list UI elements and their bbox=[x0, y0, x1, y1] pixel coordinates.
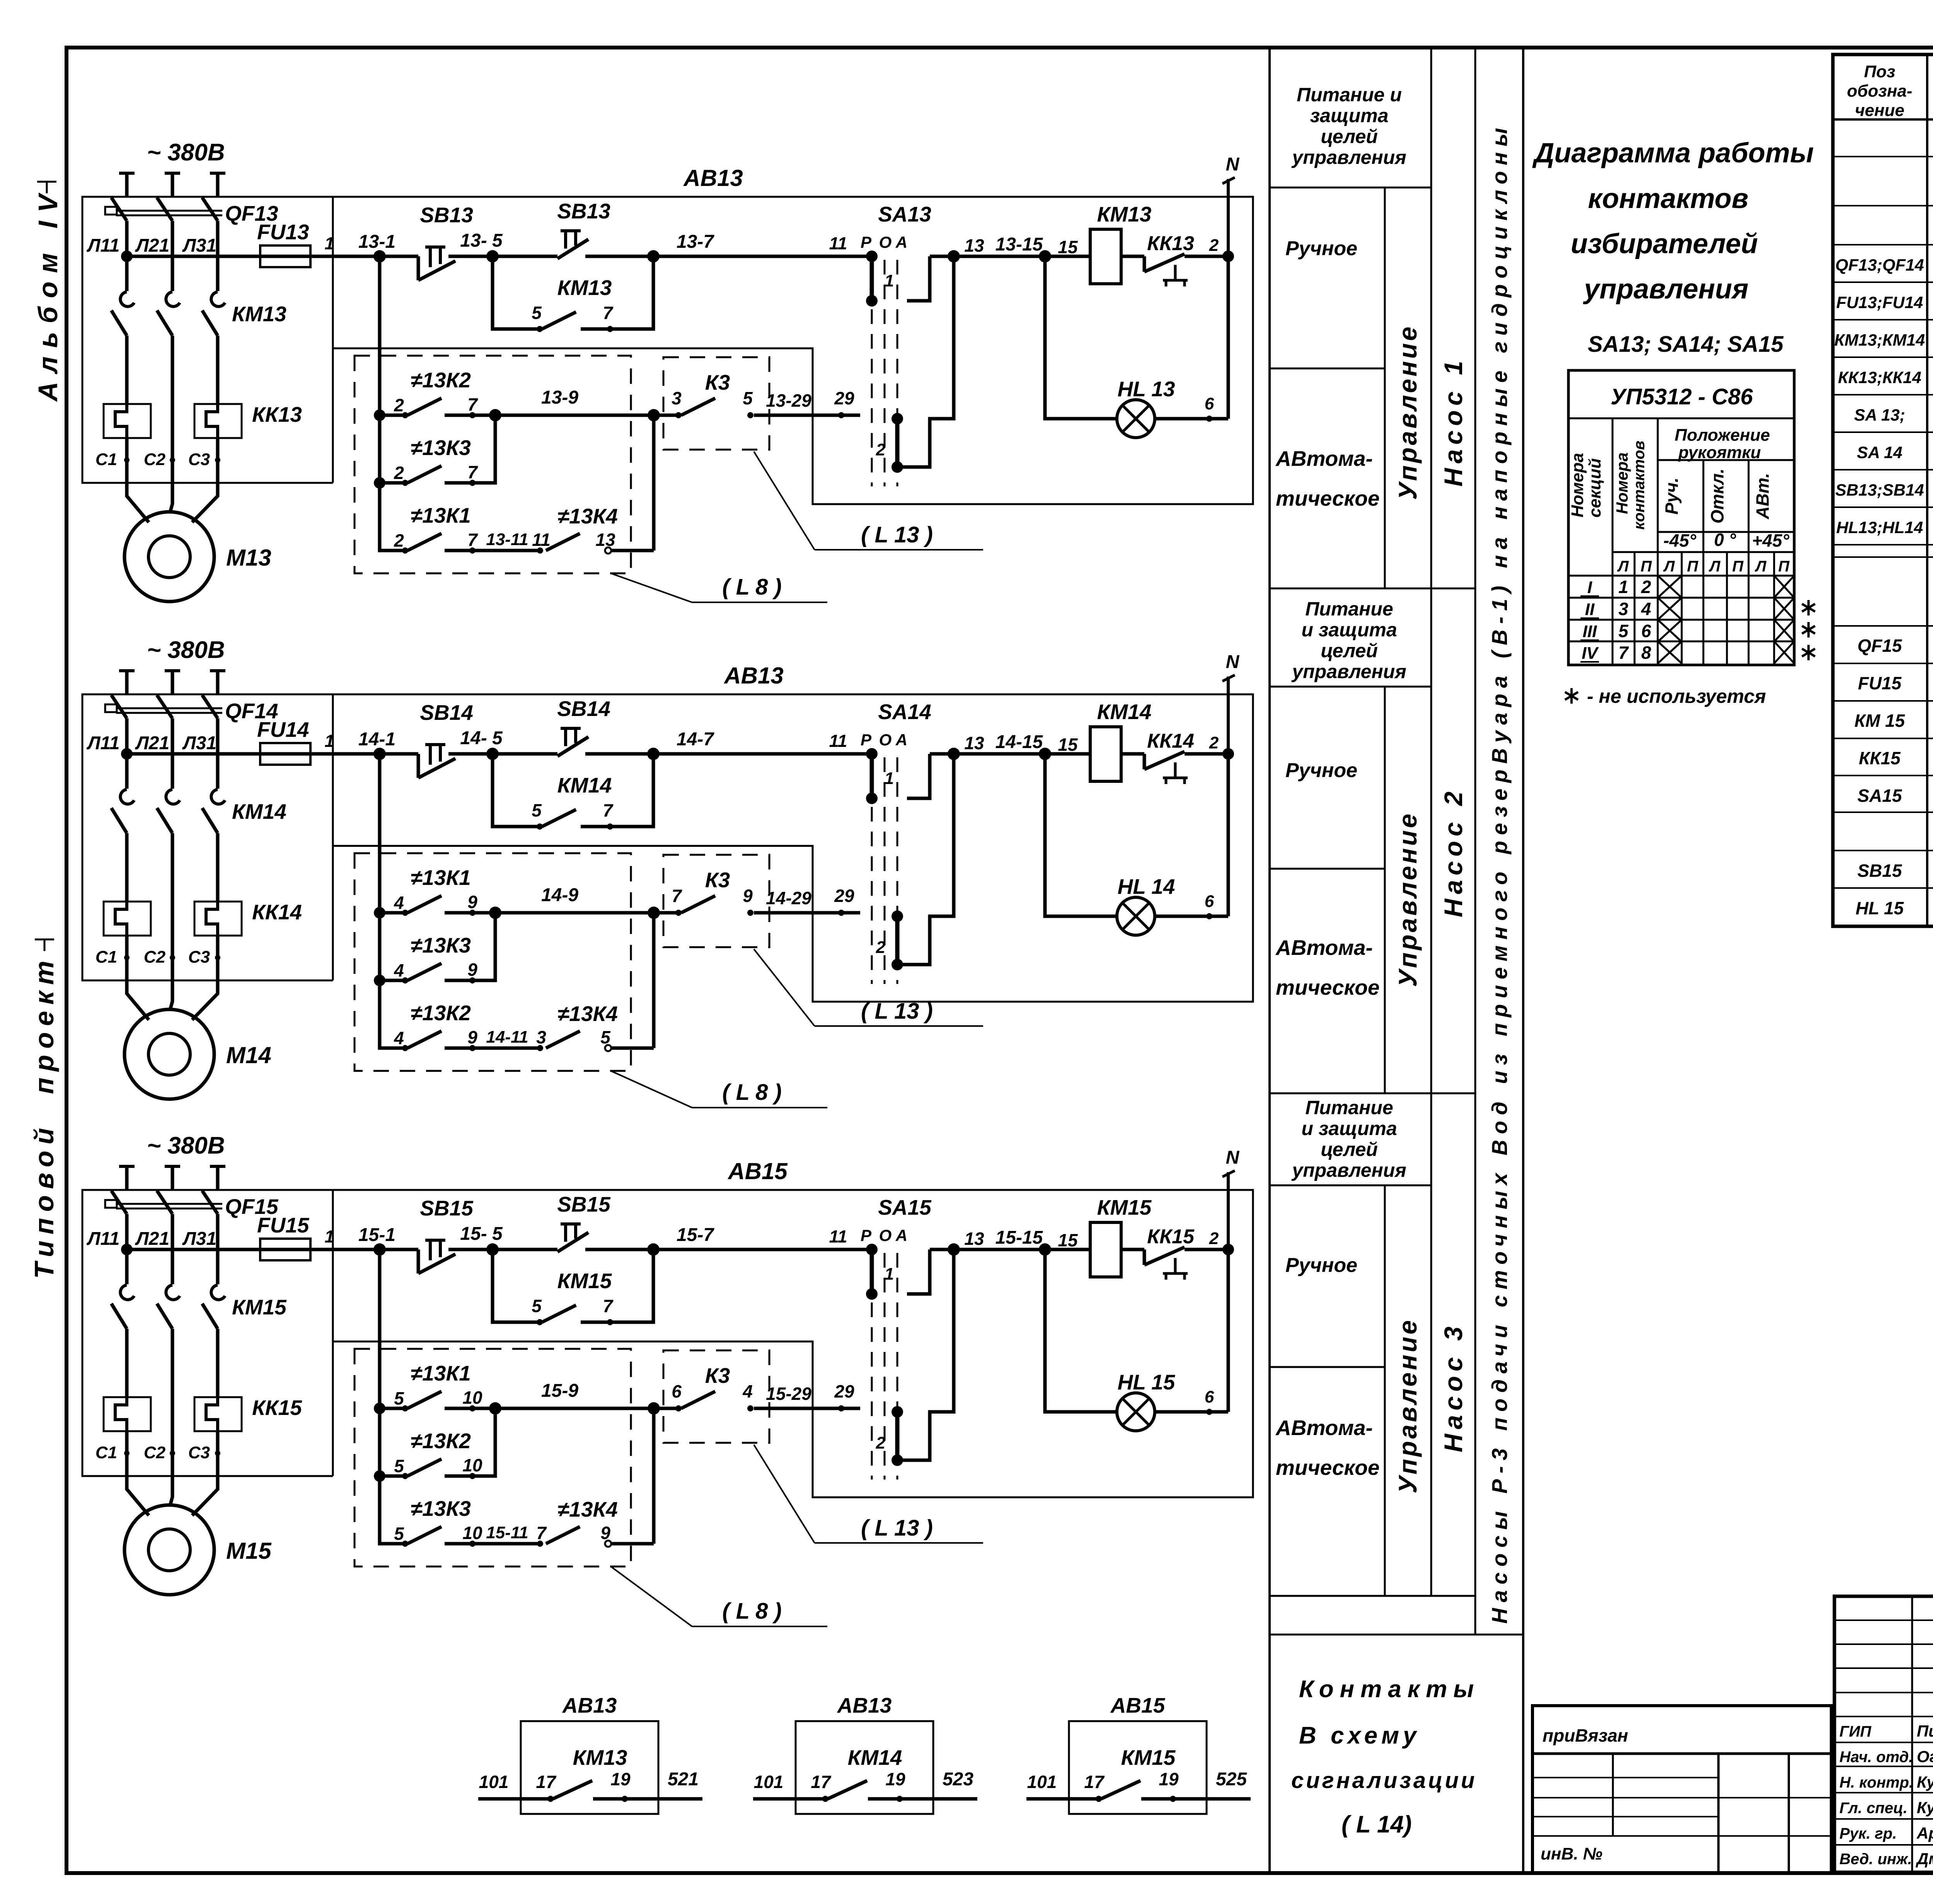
svg-text:10: 10 bbox=[462, 1455, 482, 1475]
parts row SA15 bbox=[1857, 783, 1933, 808]
svg-text:SB15: SB15 bbox=[420, 1196, 474, 1220]
column cell Ручное (2) bbox=[1285, 759, 1357, 782]
svg-text:Гл. спец.: Гл. спец. bbox=[1839, 1800, 1907, 1817]
svg-text:С1: С1 bbox=[95, 450, 117, 469]
svg-text:Ручное: Ручное bbox=[1285, 1254, 1357, 1277]
svg-text:Арнаутова: Арнаутова bbox=[1916, 1824, 1933, 1842]
svg-text:N: N bbox=[1226, 652, 1240, 672]
svg-text:7: 7 bbox=[467, 394, 478, 414]
svg-text:14-15: 14-15 bbox=[995, 732, 1043, 752]
fuse FU14 bbox=[257, 718, 310, 765]
thermal relay contact КК13 bbox=[1144, 232, 1234, 286]
svg-text:КМ13: КМ13 bbox=[573, 1745, 627, 1769]
svg-text:N: N bbox=[1226, 1147, 1240, 1168]
svg-text:11: 11 bbox=[829, 234, 847, 253]
svg-text:Л: Л bbox=[1617, 558, 1629, 575]
parts row SB15 bbox=[1857, 858, 1933, 883]
motor М14 bbox=[124, 982, 271, 1099]
svg-text:( L 8 ): ( L 8 ) bbox=[722, 574, 782, 600]
svg-text:М14: М14 bbox=[226, 1042, 271, 1068]
svg-text:П: П bbox=[1641, 558, 1652, 575]
svg-text:Нач. отд.: Нач. отд. bbox=[1839, 1749, 1913, 1766]
svg-text:13-7: 13-7 bbox=[677, 232, 714, 252]
svg-text:Л11: Л11 bbox=[87, 235, 120, 256]
svg-text:Р: Р bbox=[861, 731, 872, 749]
svg-text:( L 8 ): ( L 8 ) bbox=[722, 1080, 782, 1105]
wire Л11 control feed (circuit 13) bbox=[121, 251, 260, 262]
svg-text:( L 13 ): ( L 13 ) bbox=[861, 1515, 933, 1541]
svg-text:SA 14: SA 14 bbox=[1857, 443, 1902, 462]
svg-text:Ручное: Ручное bbox=[1285, 237, 1357, 260]
relay contact 13К1 (circuit 14 row 1) bbox=[380, 866, 660, 919]
svg-text:10: 10 bbox=[462, 1523, 482, 1543]
circuit breaker QF14 bbox=[105, 695, 278, 789]
svg-text:III: III bbox=[1583, 622, 1597, 641]
selector table header texts bbox=[1568, 426, 1790, 551]
svg-text:( L 13 ): ( L 13 ) bbox=[861, 522, 933, 547]
column cell Автоматическое (1) bbox=[1275, 447, 1379, 510]
svg-text:14-7: 14-7 bbox=[677, 729, 714, 750]
svg-text:В схему: В схему bbox=[1299, 1722, 1420, 1749]
neutral N terminal (circuit 14) bbox=[1222, 652, 1240, 754]
svg-text:А: А bbox=[895, 1226, 907, 1244]
svg-text:тическое: тическое bbox=[1276, 1456, 1379, 1480]
thermal relay heaters КК14 bbox=[104, 900, 302, 936]
svg-text:15-11: 15-11 bbox=[486, 1523, 528, 1542]
svg-text:5: 5 bbox=[394, 1524, 404, 1544]
reference label (L8) circuit 14 bbox=[611, 1071, 827, 1108]
reference label (L13) circuit 14 bbox=[754, 949, 983, 1026]
relay contact ≠13К4 (circuit 13) bbox=[546, 415, 654, 554]
svg-text:Л31: Л31 bbox=[182, 235, 216, 256]
reference label (L8) circuit 13 bbox=[611, 573, 827, 602]
svg-text:2: 2 bbox=[394, 463, 404, 483]
svg-text:II: II bbox=[1585, 600, 1595, 619]
svg-text:К3: К3 bbox=[705, 370, 730, 394]
svg-text:FU15: FU15 bbox=[1858, 673, 1902, 693]
svg-text:11: 11 bbox=[532, 530, 551, 550]
svg-text:4: 4 bbox=[394, 893, 404, 913]
svg-text:2: 2 bbox=[876, 440, 886, 459]
signalling contact КМ15 box bbox=[1026, 1693, 1251, 1814]
selector table Л П letters row bbox=[1617, 558, 1790, 575]
title block roles and names bbox=[1839, 1722, 1933, 1868]
svg-text:Откл.: Откл. bbox=[1707, 469, 1727, 524]
wire Л11 control feed (circuit 14) bbox=[121, 748, 260, 760]
svg-text:SB13: SB13 bbox=[557, 199, 610, 223]
wire 15-7 to selector SA15 bbox=[653, 1225, 872, 1249]
svg-text:Л: Л bbox=[1708, 558, 1721, 575]
svg-text:19: 19 bbox=[885, 1769, 905, 1789]
svg-text:Л31: Л31 bbox=[182, 733, 216, 753]
svg-text:17: 17 bbox=[536, 1772, 557, 1792]
svg-text:19: 19 bbox=[610, 1769, 631, 1789]
svg-text:HL 13: HL 13 bbox=[1118, 377, 1175, 401]
svg-text:101: 101 bbox=[1027, 1772, 1057, 1792]
svg-text:SB14: SB14 bbox=[557, 697, 610, 721]
signal lamp HL13 bbox=[1045, 256, 1228, 438]
svg-text:КМ15: КМ15 bbox=[557, 1269, 612, 1293]
svg-text:17: 17 bbox=[1084, 1772, 1105, 1792]
svg-text:7: 7 bbox=[603, 303, 614, 323]
column cell Управление (3) bbox=[1393, 1318, 1422, 1493]
svg-text:секций: секций bbox=[1585, 458, 1604, 518]
svg-text:0 °: 0 ° bbox=[1714, 530, 1736, 550]
svg-text:9: 9 bbox=[467, 892, 477, 912]
svg-text:≠13К1: ≠13К1 bbox=[411, 866, 471, 890]
relay contact ≠13К4 (circuit 15) bbox=[546, 1408, 654, 1547]
svg-text:1: 1 bbox=[324, 234, 334, 253]
node column 15-1 down feed bbox=[374, 1249, 402, 1544]
svg-text:2: 2 bbox=[394, 395, 404, 415]
svg-text:13: 13 bbox=[964, 733, 984, 753]
reference label (L13) circuit 15 bbox=[754, 1445, 983, 1543]
svg-text:5: 5 bbox=[532, 800, 542, 820]
column cell Насос 3 bbox=[1439, 1322, 1468, 1452]
supply label ~380В (circuit 15) bbox=[147, 1132, 225, 1159]
relay contact К3 (circuit 14) bbox=[654, 855, 860, 947]
svg-text:приВязан: приВязан bbox=[1543, 1725, 1628, 1745]
svg-text:управления: управления bbox=[1291, 147, 1406, 168]
svg-text:КК15: КК15 bbox=[252, 1396, 302, 1420]
parts row SA 14 bbox=[1857, 439, 1933, 464]
svg-text:Л21: Л21 bbox=[135, 1229, 169, 1249]
relay contact 13К1 (circuit 13 row 3) bbox=[380, 503, 543, 554]
selector SA15 contact 2 bbox=[876, 1249, 954, 1466]
stop pushbutton SB14 bbox=[380, 701, 473, 778]
svg-text:Кузнецов: Кузнецов bbox=[1917, 1773, 1933, 1791]
svg-text:SB15: SB15 bbox=[557, 1192, 611, 1216]
phase terminals Л11 Л21 Л31 (circuit 15) bbox=[87, 1166, 225, 1249]
auxiliary contact КМ13 seal-in bbox=[493, 256, 653, 332]
svg-text:101: 101 bbox=[479, 1772, 509, 1792]
svg-text:8: 8 bbox=[1641, 643, 1651, 663]
terminal label 11 (circuit 13) bbox=[532, 530, 551, 550]
relay contact 13К2 (circuit 15 row 2) bbox=[380, 1408, 495, 1479]
svg-text:тическое: тическое bbox=[1276, 486, 1379, 510]
svg-text:Л21: Л21 bbox=[135, 733, 169, 753]
svg-text:IV: IV bbox=[1582, 644, 1599, 663]
svg-text:Номера: Номера bbox=[1568, 453, 1587, 517]
column cell Насос 1 bbox=[1439, 356, 1468, 486]
svg-text:SB13: SB13 bbox=[420, 203, 473, 227]
svg-text:15: 15 bbox=[1058, 1230, 1078, 1250]
svg-text:целей: целей bbox=[1321, 640, 1378, 661]
svg-text:4: 4 bbox=[742, 1381, 753, 1401]
svg-text:С3: С3 bbox=[188, 450, 210, 469]
column cell Управление (1) bbox=[1393, 324, 1422, 500]
svg-text:5: 5 bbox=[394, 1456, 404, 1476]
parts row КМ13;КМ14 bbox=[1834, 327, 1933, 352]
svg-text:А: А bbox=[895, 731, 907, 749]
svg-text:1: 1 bbox=[885, 1265, 894, 1284]
svg-text:1: 1 bbox=[324, 731, 334, 751]
title block grid bbox=[1834, 1596, 1933, 1872]
neutral N terminal (circuit 15) bbox=[1222, 1147, 1240, 1249]
svg-text:О: О bbox=[879, 233, 892, 251]
svg-text:2: 2 bbox=[876, 938, 886, 957]
parts row QF15 bbox=[1857, 633, 1933, 658]
parts row FU13;FU14 bbox=[1836, 289, 1933, 314]
svg-text:КК13;КК14: КК13;КК14 bbox=[1838, 368, 1921, 387]
svg-text:Управление: Управление bbox=[1393, 1318, 1422, 1493]
svg-text:С2: С2 bbox=[144, 1443, 166, 1462]
phase terminals Л11 Л21 Л31 (circuit 13) bbox=[87, 173, 225, 256]
node column 13-1 down feed bbox=[374, 256, 402, 551]
svg-text:14-1: 14-1 bbox=[358, 729, 395, 750]
selector table rows I-IV bbox=[1580, 577, 1651, 663]
svg-text:15-7: 15-7 bbox=[677, 1225, 714, 1245]
svg-text:М15: М15 bbox=[226, 1538, 272, 1564]
signal lamp HL15 bbox=[1045, 1249, 1228, 1431]
wire 1 to node 13-1 bbox=[310, 232, 395, 263]
phase terminals Л11 Л21 Л31 (circuit 14) bbox=[87, 671, 225, 753]
svg-text:525: 525 bbox=[1216, 1769, 1247, 1790]
svg-text:9: 9 bbox=[467, 960, 477, 980]
selector switch SA15 bbox=[872, 1228, 897, 1480]
circuit breaker QF15 bbox=[105, 1191, 279, 1284]
svg-text:523: 523 bbox=[943, 1769, 973, 1790]
svg-text:15-29: 15-29 bbox=[766, 1384, 811, 1404]
svg-text:управления: управления bbox=[1291, 1159, 1406, 1181]
svg-text:КМ14: КМ14 bbox=[848, 1745, 902, 1769]
svg-text:14-9: 14-9 bbox=[541, 885, 578, 905]
svg-text:11: 11 bbox=[829, 1227, 847, 1246]
svg-text:КМ13: КМ13 bbox=[1097, 202, 1152, 226]
svg-text:5: 5 bbox=[743, 388, 753, 408]
svg-text:SA13: SA13 bbox=[878, 202, 931, 226]
svg-text:521: 521 bbox=[668, 1769, 699, 1790]
svg-text:проект: проект bbox=[29, 955, 59, 1094]
svg-text:≠13К3: ≠13К3 bbox=[411, 933, 471, 957]
cabinet box АВ15 (circuit 15) bbox=[82, 1158, 1253, 1497]
svg-text:3: 3 bbox=[1618, 599, 1628, 619]
svg-text:4: 4 bbox=[394, 960, 404, 980]
svg-text:≠13К1: ≠13К1 bbox=[411, 1361, 471, 1385]
svg-text:Огурцов: Огурцов bbox=[1917, 1747, 1933, 1766]
parts row КК15 bbox=[1859, 745, 1933, 770]
svg-text:Л11: Л11 bbox=[87, 1229, 120, 1249]
svg-text:15: 15 bbox=[1058, 237, 1078, 257]
wire 1 to node 14-1 bbox=[310, 729, 395, 760]
selector SA13 labels Р О А bbox=[859, 202, 931, 252]
svg-text:2: 2 bbox=[1641, 577, 1651, 597]
relay contact 13К1 (circuit 15 row 1) bbox=[380, 1361, 660, 1415]
svg-text:КМ13: КМ13 bbox=[232, 302, 286, 326]
svg-text:Л21: Л21 bbox=[135, 235, 169, 256]
svg-text:13: 13 bbox=[964, 1229, 984, 1249]
svg-text:~ 380В: ~ 380В bbox=[147, 1132, 225, 1159]
start pushbutton SB14 bbox=[493, 697, 660, 760]
svg-text:С2: С2 bbox=[144, 450, 166, 469]
svg-text:6: 6 bbox=[1205, 1388, 1214, 1406]
svg-text:SB13;SB14: SB13;SB14 bbox=[1835, 481, 1924, 499]
selector SA13 contact 1 bbox=[866, 251, 954, 307]
svg-text:14-11: 14-11 bbox=[486, 1028, 528, 1047]
svg-text:5: 5 bbox=[532, 1296, 542, 1316]
svg-text:УП5312 - С86: УП5312 - С86 bbox=[1611, 384, 1753, 409]
svg-text:3: 3 bbox=[672, 388, 682, 408]
long column text Насосы Р-3 подачи сточных вод bbox=[1487, 122, 1512, 1624]
svg-text:7: 7 bbox=[467, 530, 478, 550]
svg-text:3: 3 bbox=[536, 1027, 546, 1047]
motor М15 bbox=[124, 1478, 272, 1595]
motor terminals С1 С2 С3 (circuit 15) bbox=[95, 1431, 220, 1478]
svg-text:5: 5 bbox=[394, 1388, 404, 1408]
svg-text:целей: целей bbox=[1321, 126, 1378, 147]
svg-text:управления: управления bbox=[1583, 274, 1748, 305]
column header Питание и защита цепей управления (1) bbox=[1291, 84, 1406, 168]
svg-text:С1: С1 bbox=[95, 1443, 117, 1462]
column footer Контакты в схему сигнализации (L14) bbox=[1291, 1676, 1480, 1838]
parts list table grid bbox=[1833, 55, 1933, 926]
cabinet box АВ13 (circuit 14) bbox=[82, 663, 1253, 1002]
svg-text:АВт.: АВт. bbox=[1752, 473, 1773, 520]
note * не используется bbox=[1565, 685, 1766, 707]
svg-text:SA13; SA14; SA15: SA13; SA14; SA15 bbox=[1588, 332, 1784, 357]
svg-text:≠13К4: ≠13К4 bbox=[557, 504, 618, 528]
signalling contact КМ13 box bbox=[478, 1693, 702, 1814]
svg-text:7: 7 bbox=[1618, 643, 1629, 663]
column cell Управление (2) bbox=[1393, 811, 1422, 987]
svg-text:КК13: КК13 bbox=[252, 402, 302, 426]
svg-text:15- 5: 15- 5 bbox=[460, 1224, 503, 1244]
svg-text:КК15: КК15 bbox=[1147, 1226, 1195, 1248]
relay contact 13К3 (circuit 14 row 2) bbox=[380, 913, 495, 984]
parts row КК13;КК14 bbox=[1838, 364, 1933, 389]
signal lamp HL14 bbox=[1045, 754, 1228, 935]
selector table asterisks bbox=[1802, 600, 1815, 660]
svg-text:ПиВторак: ПиВторак bbox=[1917, 1722, 1933, 1740]
circuit breaker QF13 bbox=[105, 198, 278, 291]
svg-text:FU15: FU15 bbox=[257, 1213, 310, 1237]
parts row SB13;SB14 bbox=[1835, 477, 1933, 502]
svg-text:19: 19 bbox=[1159, 1769, 1179, 1789]
svg-text:6: 6 bbox=[672, 1381, 682, 1401]
svg-text:SB14: SB14 bbox=[420, 701, 473, 724]
svg-text:АВ13: АВ13 bbox=[837, 1693, 892, 1717]
svg-text:7: 7 bbox=[603, 1296, 614, 1316]
svg-text:1: 1 bbox=[885, 769, 894, 788]
svg-text:Л: Л bbox=[1754, 558, 1767, 575]
svg-text:Ручное: Ручное bbox=[1285, 759, 1357, 782]
svg-text:Альбом IV: Альбом IV bbox=[33, 186, 63, 402]
svg-text:29: 29 bbox=[834, 388, 854, 408]
reference label (L13) circuit 13 bbox=[754, 452, 983, 550]
svg-text:К3: К3 bbox=[705, 1364, 730, 1388]
svg-text:П: П bbox=[1687, 558, 1699, 575]
svg-text:≠13К1: ≠13К1 bbox=[411, 503, 471, 527]
svg-text:Управление: Управление bbox=[1393, 324, 1422, 500]
svg-text:АВтома-: АВтома- bbox=[1275, 936, 1373, 960]
svg-text:13: 13 bbox=[964, 235, 984, 256]
svg-text:1: 1 bbox=[1618, 577, 1628, 597]
contactor main contacts КМ14 bbox=[111, 789, 286, 902]
node column 14-1 down feed bbox=[374, 754, 402, 1048]
attribute table привязан bbox=[1532, 1706, 1831, 1873]
parts row HL 15 bbox=[1856, 895, 1933, 920]
svg-text:и защита: и защита bbox=[1301, 619, 1397, 641]
svg-text:I: I bbox=[1587, 578, 1592, 597]
relay contact 13К2 (circuit 13 row 1) bbox=[380, 368, 660, 421]
parts row HL13;HL14 bbox=[1836, 514, 1933, 539]
svg-text:2: 2 bbox=[1209, 733, 1219, 752]
svg-text:КК15: КК15 bbox=[1859, 748, 1901, 768]
parts row QF13;QF14 bbox=[1835, 252, 1933, 277]
svg-text:Контакты: Контакты bbox=[1299, 1676, 1480, 1703]
svg-text:~ 380В: ~ 380В bbox=[147, 637, 225, 663]
svg-text:избирателей: избирателей bbox=[1571, 228, 1758, 259]
fuse FU15 bbox=[257, 1213, 310, 1260]
wire 13-7 to selector SA13 bbox=[653, 232, 872, 256]
svg-text:2: 2 bbox=[1209, 236, 1219, 255]
svg-text:Руч.: Руч. bbox=[1662, 477, 1682, 515]
neutral N terminal (circuit 13) bbox=[1222, 154, 1240, 256]
parts row КМ 15 bbox=[1855, 708, 1933, 733]
svg-text:15-9: 15-9 bbox=[541, 1381, 578, 1401]
selector SA15 contact 1 bbox=[866, 1244, 954, 1300]
selector SA14 contact 2 bbox=[876, 754, 954, 970]
svg-text:13: 13 bbox=[595, 530, 615, 550]
svg-text:рукоятки: рукоятки bbox=[1678, 443, 1761, 462]
svg-text:КМ13;КМ14: КМ13;КМ14 bbox=[1834, 331, 1925, 349]
svg-text:КМ14: КМ14 bbox=[1097, 700, 1152, 724]
svg-text:13-15: 13-15 bbox=[995, 234, 1043, 255]
thermal relay heaters КК15 bbox=[104, 1396, 302, 1431]
svg-text:2: 2 bbox=[1209, 1229, 1219, 1248]
svg-text:10: 10 bbox=[462, 1388, 482, 1408]
svg-text:- не используется: - не используется bbox=[1587, 685, 1766, 707]
svg-text:SA 13;: SA 13; bbox=[1854, 406, 1905, 424]
svg-text:+45°: +45° bbox=[1752, 530, 1790, 551]
svg-text:Н. контр.: Н. контр. bbox=[1839, 1774, 1913, 1791]
svg-text:7: 7 bbox=[467, 462, 478, 482]
svg-text:О: О bbox=[879, 1226, 892, 1244]
svg-text:АВ13: АВ13 bbox=[562, 1693, 617, 1717]
wire to node 15-5 bbox=[448, 1224, 503, 1256]
svg-text:QF15: QF15 bbox=[1857, 636, 1902, 656]
svg-text:≠13К2: ≠13К2 bbox=[411, 368, 471, 392]
external contacts dashed box (L8) circuit 13 bbox=[355, 356, 631, 573]
cabinet box АВ13 (circuit 13) bbox=[82, 165, 1253, 504]
svg-text:7: 7 bbox=[536, 1523, 547, 1543]
svg-text:-45°: -45° bbox=[1664, 530, 1696, 551]
svg-text:тическое: тическое bbox=[1276, 975, 1379, 999]
svg-text:QF13;QF14: QF13;QF14 bbox=[1835, 256, 1924, 274]
svg-text:Рук. гр.: Рук. гр. bbox=[1839, 1825, 1897, 1842]
wire 1 to node 15-1 bbox=[310, 1225, 395, 1256]
svg-text:HL13;HL14: HL13;HL14 bbox=[1836, 518, 1923, 537]
start pushbutton SB15 bbox=[493, 1192, 660, 1256]
svg-text:≠13К2: ≠13К2 bbox=[411, 1429, 471, 1453]
svg-text:Насос 1: Насос 1 bbox=[1439, 356, 1468, 486]
svg-text:Номера: Номера bbox=[1613, 452, 1631, 514]
parts table headers bbox=[1847, 62, 1933, 120]
contactor coil КМ13 bbox=[1090, 202, 1151, 284]
svg-text:13-9: 13-9 bbox=[541, 387, 578, 408]
svg-text:13-11: 13-11 bbox=[486, 530, 528, 549]
svg-text:С3: С3 bbox=[188, 948, 210, 966]
motor terminals С1 С2 С3 (circuit 14) bbox=[95, 936, 220, 982]
svg-text:Питание и: Питание и bbox=[1297, 84, 1402, 106]
svg-text:5: 5 bbox=[1618, 621, 1629, 641]
svg-text:КМ15: КМ15 bbox=[1121, 1745, 1176, 1769]
contactor main contacts КМ15 bbox=[111, 1285, 287, 1397]
motor terminals С1 С2 С3 (circuit 13) bbox=[95, 438, 220, 484]
svg-text:HL 15: HL 15 bbox=[1118, 1370, 1176, 1394]
svg-text:6: 6 bbox=[1641, 621, 1651, 641]
svg-text:КМ14: КМ14 bbox=[557, 773, 612, 797]
